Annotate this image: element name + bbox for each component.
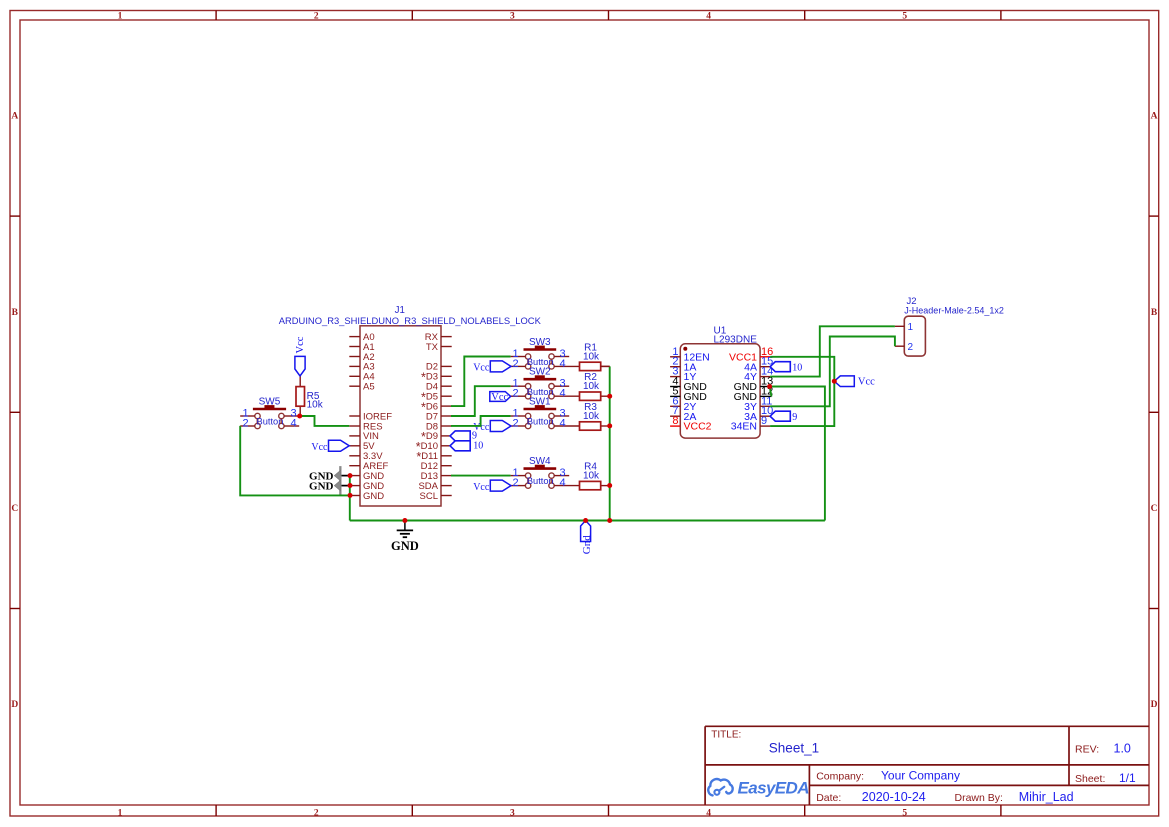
net port 10 at U1 pin15 bbox=[770, 362, 802, 374]
svg-text:4: 4 bbox=[706, 11, 711, 21]
wire R5 junction to RES pin bbox=[300, 416, 350, 426]
svg-text:10k: 10k bbox=[583, 381, 600, 392]
svg-text:D: D bbox=[1151, 700, 1158, 710]
J1 right pins bbox=[416, 332, 452, 502]
U1 right pins bbox=[729, 346, 773, 433]
svg-text:5: 5 bbox=[902, 809, 907, 819]
row labels bbox=[11, 112, 1157, 711]
svg-text:SW5: SW5 bbox=[259, 397, 281, 408]
svg-text:2: 2 bbox=[242, 418, 248, 430]
svg-text:2: 2 bbox=[512, 418, 518, 430]
EasyEDA logo bbox=[708, 779, 809, 798]
svg-text:1: 1 bbox=[118, 11, 123, 21]
wire U1 pin13 to pin12 diagonal bbox=[770, 387, 772, 397]
svg-text:ARDUINO_R3_SHIELDUNO_R3_SHIELD: ARDUINO_R3_SHIELDUNO_R3_SHIELD_NOLABELS_… bbox=[279, 315, 542, 326]
svg-text:Your Company: Your Company bbox=[881, 769, 960, 783]
IC U1 L293DNE body bbox=[680, 344, 760, 438]
connector J2 J-Header-Male-2.54_1x2 body bbox=[904, 316, 925, 356]
svg-text:EasyEDA: EasyEDA bbox=[738, 779, 810, 798]
svg-text:TITLE:: TITLE: bbox=[711, 730, 741, 741]
svg-text:10k: 10k bbox=[583, 471, 600, 482]
net flag Vcc at J1 5V pin bbox=[311, 440, 349, 453]
column labels bbox=[118, 11, 908, 818]
wire D8 to SW1 pin1 bbox=[451, 416, 511, 426]
svg-text:GND: GND bbox=[391, 539, 419, 553]
wire U1 GND pin13 to rail bbox=[770, 387, 825, 521]
svg-text:Button: Button bbox=[257, 417, 284, 427]
net flag Vcc at SW4 pin2 bbox=[473, 480, 511, 493]
title block lines bbox=[705, 726, 1149, 805]
net flag Vcc at SW3 pin2 bbox=[473, 361, 511, 374]
svg-text:Sheet:: Sheet: bbox=[1075, 773, 1105, 785]
svg-text:3: 3 bbox=[510, 11, 515, 21]
svg-text:A: A bbox=[1151, 112, 1158, 122]
net port 9 at J1 *D9 bbox=[450, 431, 477, 442]
svg-text:GND: GND bbox=[363, 491, 384, 502]
net port 10 at J1 *D10 bbox=[450, 441, 483, 452]
resistor R1 10k bbox=[580, 342, 610, 370]
pushbutton SW3 bbox=[511, 337, 580, 370]
svg-text:4: 4 bbox=[559, 388, 565, 400]
svg-text:3: 3 bbox=[510, 809, 515, 819]
svg-text:Button: Button bbox=[527, 387, 554, 397]
svg-text:10k: 10k bbox=[583, 411, 600, 422]
svg-text:Sheet_1: Sheet_1 bbox=[769, 741, 819, 756]
svg-text:SW2: SW2 bbox=[529, 367, 551, 378]
wire R1 right to rail bbox=[601, 365, 610, 367]
svg-text:Company:: Company: bbox=[816, 771, 864, 783]
wire *D6 to SW3 pin1 bbox=[451, 357, 511, 407]
resistor R2 10k bbox=[580, 372, 610, 400]
svg-text:10: 10 bbox=[792, 363, 802, 374]
svg-text:2: 2 bbox=[314, 809, 319, 819]
net flag Vcc at U1 right (pointing left) bbox=[834, 376, 875, 388]
svg-text:L293DNE: L293DNE bbox=[714, 335, 758, 346]
svg-text:REV:: REV: bbox=[1075, 744, 1099, 756]
svg-text:1: 1 bbox=[118, 809, 123, 819]
pushbutton SW2 bbox=[511, 367, 580, 400]
svg-text:5: 5 bbox=[902, 11, 907, 21]
svg-text:2: 2 bbox=[314, 11, 319, 21]
svg-text:4: 4 bbox=[290, 418, 296, 430]
connector J1 ARDUINO_R3_SHIELD body bbox=[360, 326, 441, 506]
resistor R3 10k bbox=[580, 402, 610, 430]
wire bottom GND rail bbox=[350, 520, 825, 522]
J1 left pins bbox=[349, 332, 392, 502]
wire J1 GND pins vertical bbox=[349, 476, 351, 521]
wire D7 to SW2 pin1 bbox=[451, 386, 511, 416]
svg-text:C: C bbox=[11, 504, 18, 514]
ground symbol GND below J1 bbox=[391, 521, 419, 554]
wire U1 3Y to J2 pin2 bbox=[770, 337, 895, 407]
svg-text:34EN: 34EN bbox=[731, 421, 757, 433]
wire SW5 pin2 to GND rail bbox=[240, 426, 350, 496]
net flag Gnd on rail (vertical tag) bbox=[581, 521, 593, 555]
svg-text:10: 10 bbox=[473, 441, 483, 452]
svg-text:SW4: SW4 bbox=[529, 456, 551, 467]
title block text bbox=[711, 730, 1136, 805]
svg-text:Gnd: Gnd bbox=[581, 535, 593, 554]
svg-text:VCC2: VCC2 bbox=[684, 421, 712, 433]
svg-text:SW1: SW1 bbox=[529, 397, 551, 408]
net flag Vcc at SW1 pin2 bbox=[473, 421, 511, 434]
pushbutton SW1 bbox=[511, 397, 580, 430]
svg-text:2: 2 bbox=[512, 388, 518, 400]
svg-text:8: 8 bbox=[672, 415, 678, 427]
svg-text:4: 4 bbox=[559, 418, 565, 430]
svg-text:Button: Button bbox=[527, 357, 554, 367]
svg-text:Vcc: Vcc bbox=[473, 363, 490, 374]
svg-text:Date:: Date: bbox=[816, 792, 841, 804]
svg-text:Button: Button bbox=[527, 417, 554, 427]
svg-text:B: B bbox=[1151, 308, 1158, 318]
net flag Vcc at SW2 pin2 (boxed) bbox=[490, 392, 511, 404]
svg-text:Vcc: Vcc bbox=[491, 392, 508, 403]
svg-text:C: C bbox=[1151, 504, 1158, 514]
net port 9 at U1 pin10 bbox=[770, 411, 797, 423]
svg-text:Vcc: Vcc bbox=[858, 377, 875, 388]
wire D13 to SW4 pin1 bbox=[451, 475, 511, 477]
svg-text:Drawn By:: Drawn By: bbox=[955, 792, 1003, 804]
svg-text:Button: Button bbox=[527, 476, 554, 486]
svg-text:D: D bbox=[11, 700, 18, 710]
svg-text:9: 9 bbox=[761, 415, 767, 427]
svg-text:9: 9 bbox=[792, 412, 797, 423]
resistor R5 10k vertical bbox=[296, 376, 324, 416]
svg-text:Vcc: Vcc bbox=[295, 336, 306, 353]
svg-text:4: 4 bbox=[559, 358, 565, 370]
svg-text:2020-10-24: 2020-10-24 bbox=[862, 790, 926, 804]
pushbutton SW4 bbox=[511, 456, 580, 489]
svg-text:A5: A5 bbox=[363, 382, 375, 393]
svg-text:Vcc: Vcc bbox=[311, 442, 328, 453]
resistor R4 10k bbox=[580, 462, 610, 490]
svg-text:4: 4 bbox=[559, 477, 565, 489]
net flag GND at J1 GND pin 1 bbox=[309, 466, 349, 485]
svg-text:Mihir_Lad: Mihir_Lad bbox=[1019, 790, 1074, 804]
svg-text:10k: 10k bbox=[583, 351, 600, 362]
svg-text:2: 2 bbox=[908, 342, 914, 353]
svg-text:10k: 10k bbox=[307, 400, 324, 411]
svg-text:B: B bbox=[12, 308, 19, 318]
J2 pin 1 bbox=[895, 322, 914, 333]
svg-text:1/1: 1/1 bbox=[1119, 771, 1136, 785]
svg-text:1.0: 1.0 bbox=[1114, 742, 1131, 756]
svg-text:SW3: SW3 bbox=[529, 337, 551, 348]
svg-text:2: 2 bbox=[512, 358, 518, 370]
wire resistor rail to GND bbox=[609, 366, 611, 520]
wire U1 4Y to J2 pin1 bbox=[770, 326, 895, 376]
svg-text:TX: TX bbox=[426, 342, 439, 353]
net flag GND at J1 GND pin 2 bbox=[309, 476, 349, 495]
svg-text:4: 4 bbox=[706, 809, 711, 819]
junction dots bbox=[297, 379, 837, 523]
wire U1 VCC1 to 34EN via Vcc bbox=[770, 357, 834, 426]
svg-text:GND: GND bbox=[309, 480, 334, 492]
svg-text:A: A bbox=[11, 112, 18, 122]
net flag Vcc above R5 (vertical) bbox=[295, 336, 306, 376]
svg-text:1: 1 bbox=[908, 322, 914, 333]
U1 left pins bbox=[670, 346, 712, 433]
svg-text:Vcc: Vcc bbox=[473, 482, 490, 493]
svg-text:2: 2 bbox=[512, 477, 518, 489]
svg-text:J-Header-Male-2.54_1x2: J-Header-Male-2.54_1x2 bbox=[904, 305, 1004, 315]
pushbutton SW5 bbox=[240, 397, 299, 430]
J2 pin 2 bbox=[895, 342, 914, 353]
svg-text:SCL: SCL bbox=[420, 491, 438, 502]
